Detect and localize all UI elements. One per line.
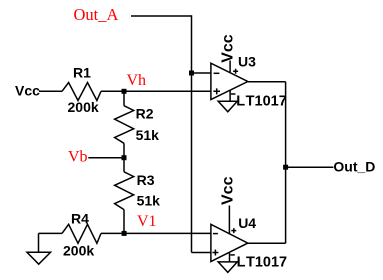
ground (under U4) xyxy=(218,262,237,273)
ground (left, R4) xyxy=(38,233,40,252)
svg-text:Vcc: Vcc xyxy=(220,176,237,205)
U3 ground pin xyxy=(229,90,231,101)
junction node Vl xyxy=(122,231,127,236)
svg-text:Out_A: Out_A xyxy=(74,5,119,24)
U4 V+ plus marker xyxy=(231,228,236,233)
wire U3 output xyxy=(248,81,286,83)
wire Out_A vertical bus xyxy=(191,15,193,252)
junction node Vh xyxy=(122,89,127,94)
svg-text:Out_D: Out_D xyxy=(333,158,375,174)
junction node Out_D xyxy=(283,165,288,170)
wire R4 to node Vl xyxy=(101,232,124,234)
U3 Vcc pin xyxy=(229,61,231,73)
wire output bus vertical xyxy=(285,82,287,244)
resistor R2 xyxy=(115,106,134,144)
svg-text:Vh: Vh xyxy=(127,72,147,89)
svg-text:R2: R2 xyxy=(136,106,154,122)
wire to U3 inverting input xyxy=(192,72,212,74)
U4 Vcc pin xyxy=(228,206,230,235)
resistor R4 xyxy=(62,224,101,243)
wire Vcc to R1 xyxy=(39,90,62,92)
wire R3 to node Vl xyxy=(123,210,125,234)
svg-text:LT1017: LT1017 xyxy=(236,94,287,110)
wire R2 to node Vb xyxy=(123,143,125,157)
U3 pin 2 minus marker xyxy=(214,72,220,74)
resistor R3 xyxy=(115,172,134,210)
wire U4 output xyxy=(248,242,286,244)
junction node Vb xyxy=(122,155,127,160)
ground (under U3) xyxy=(218,101,237,112)
svg-text:51k: 51k xyxy=(136,127,160,143)
svg-text:LT1017: LT1017 xyxy=(237,254,288,270)
svg-text:R3: R3 xyxy=(137,172,155,188)
junction at U3 inverting input xyxy=(189,71,194,76)
svg-text:51k: 51k xyxy=(137,193,161,209)
wire to Out_D label xyxy=(286,166,334,168)
U4 pin 2 minus marker xyxy=(213,233,218,235)
svg-text:R4: R4 xyxy=(71,210,89,226)
svg-text:200k: 200k xyxy=(63,242,94,258)
U3 pin 3 plus marker xyxy=(213,88,220,94)
U4 pin 3 plus marker xyxy=(212,250,218,256)
op-amp U3 xyxy=(211,63,248,99)
svg-text:R1: R1 xyxy=(73,64,91,80)
svg-text:U4: U4 xyxy=(238,215,256,231)
U3 V+ plus marker xyxy=(233,69,238,74)
wire Out_A horizontal xyxy=(131,15,192,17)
wire to U4 non-inverting input xyxy=(192,252,211,254)
U4 ground pin xyxy=(229,252,231,262)
svg-text:Vcc: Vcc xyxy=(220,34,237,63)
svg-text:200k: 200k xyxy=(68,99,99,115)
U4 V- minus marker xyxy=(230,254,235,256)
wire Vh to R2 xyxy=(123,91,125,105)
svg-text:V1: V1 xyxy=(137,213,157,230)
svg-text:U3: U3 xyxy=(238,53,256,69)
wire ground to R4 xyxy=(39,232,63,234)
wire Vb to R3 xyxy=(123,158,125,172)
wire Vh to U3 non-inverting input xyxy=(124,90,211,92)
svg-text:Vcc: Vcc xyxy=(15,82,40,98)
wire Vl to U4 inverting input xyxy=(124,232,211,234)
resistor R1 xyxy=(62,83,101,101)
op-amp U4 xyxy=(211,224,248,261)
wire Vb stub xyxy=(88,157,124,159)
U3 V- minus marker xyxy=(231,93,236,95)
svg-text:Vb: Vb xyxy=(68,149,88,166)
wire R1 to node Vh xyxy=(101,90,124,92)
